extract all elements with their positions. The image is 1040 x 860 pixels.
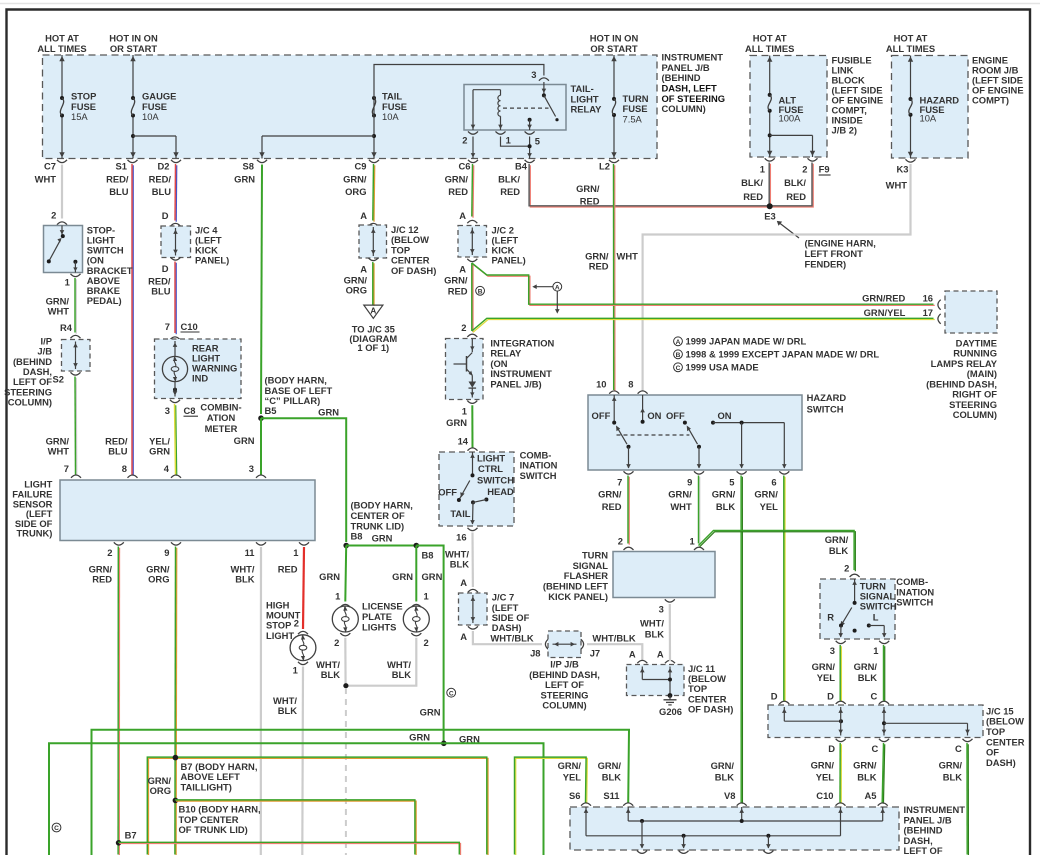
svg-text:INATION: INATION bbox=[520, 460, 558, 471]
wire GRN/BLK hazard pin5 to bottom J/B V8 bbox=[741, 477, 743, 804]
svg-text:D: D bbox=[162, 210, 169, 221]
tail fuse output branch to S8 and C9 bbox=[373, 116, 375, 159]
svg-text:TURN: TURN bbox=[582, 549, 608, 560]
svg-text:RED: RED bbox=[743, 191, 763, 202]
connector 16 of light ctrl switch bbox=[468, 528, 478, 531]
svg-text:GRN: GRN bbox=[372, 533, 393, 544]
svg-text:C: C bbox=[54, 825, 59, 832]
junction connector J/C11 box bbox=[627, 665, 685, 696]
svg-text:BLK/: BLK/ bbox=[784, 177, 806, 188]
svg-text:PLATE: PLATE bbox=[362, 611, 392, 622]
svg-text:7: 7 bbox=[165, 321, 170, 332]
svg-text:B: B bbox=[478, 288, 483, 295]
svg-text:9: 9 bbox=[164, 547, 169, 558]
splice GRN (line B junction) bbox=[441, 741, 447, 747]
svg-text:BLK: BLK bbox=[321, 669, 340, 680]
svg-text:C: C bbox=[872, 743, 879, 754]
svg-text:YEL: YEL bbox=[817, 672, 836, 683]
svg-text:BLK: BLK bbox=[943, 771, 962, 782]
svg-text:D: D bbox=[827, 691, 834, 702]
svg-text:SIGNAL: SIGNAL bbox=[573, 560, 609, 571]
wire GRN/YEL J/C15 to bottom J/B C10 bbox=[840, 744, 842, 804]
svg-text:RED: RED bbox=[786, 191, 806, 202]
light ctrl switch box bbox=[439, 452, 514, 526]
svg-text:LEFT FRONT: LEFT FRONT bbox=[805, 248, 864, 259]
daytime running lamps relay box bbox=[945, 291, 997, 333]
wire fusible link pin1 BLK/RED to splice E3 bbox=[769, 164, 771, 207]
svg-text:10: 10 bbox=[596, 378, 606, 389]
splice B7 on GRN/ORG bbox=[173, 755, 179, 761]
svg-text:B8: B8 bbox=[422, 549, 434, 560]
svg-text:WHT: WHT bbox=[617, 250, 639, 261]
svg-text:4: 4 bbox=[164, 463, 170, 474]
hazard switch contact 1 bbox=[613, 395, 615, 423]
svg-text:BLK/: BLK/ bbox=[741, 177, 763, 188]
rear light warning indicator box bbox=[155, 339, 242, 399]
svg-text:7.5A: 7.5A bbox=[623, 113, 643, 124]
turn signal switch box bbox=[820, 579, 895, 639]
svg-text:D2: D2 bbox=[158, 161, 170, 172]
hazard fuse 10A bbox=[910, 56, 912, 100]
tail-light relay pin 3 connector bbox=[539, 78, 549, 81]
svg-text:SWITCH: SWITCH bbox=[896, 597, 933, 608]
svg-text:OF DASH): OF DASH) bbox=[391, 265, 436, 276]
wire D2 RED/BLU to J/C4 bbox=[175, 165, 178, 222]
wire K3 WHT to hazard switch pin 8 bbox=[643, 164, 911, 391]
svg-text:C8: C8 bbox=[184, 405, 196, 416]
svg-text:RED: RED bbox=[500, 186, 520, 197]
arrow to splice E3 bbox=[780, 223, 800, 238]
connector S2 bbox=[71, 372, 81, 375]
svg-text:OF DASH): OF DASH) bbox=[688, 704, 733, 715]
svg-text:ATION: ATION bbox=[207, 412, 236, 423]
alt fuse 100A bbox=[769, 56, 771, 95]
svg-text:PEDAL): PEDAL) bbox=[87, 295, 122, 306]
wire GRN/WHT S2 to LFS pin 7 bbox=[75, 378, 78, 476]
hazard switch box bbox=[588, 395, 802, 470]
svg-text:GRN/: GRN/ bbox=[853, 760, 877, 771]
svg-text:RED: RED bbox=[602, 501, 622, 512]
svg-text:2: 2 bbox=[294, 618, 299, 629]
wire WHT/BLK LFS pin11 to bottom bbox=[260, 547, 262, 855]
svg-text:A: A bbox=[460, 577, 467, 588]
svg-text:10A: 10A bbox=[142, 111, 159, 122]
gauge fuse 10A bbox=[132, 55, 134, 98]
wire L2 GRN/RED to hazard switch pin 10 bbox=[614, 165, 616, 391]
svg-text:B4: B4 bbox=[515, 161, 528, 172]
wire GRN/BLK flasher pin1 to turn signal switch pin2 bbox=[700, 532, 856, 572]
svg-text:BLU: BLU bbox=[108, 446, 127, 457]
svg-text:2: 2 bbox=[802, 164, 807, 175]
hazard switch bottom connectors bbox=[624, 471, 634, 474]
svg-text:RED: RED bbox=[92, 573, 112, 584]
svg-text:COMBIN-: COMBIN- bbox=[200, 402, 241, 413]
tail-light relay box bbox=[464, 85, 566, 131]
svg-text:CTRL: CTRL bbox=[478, 463, 503, 474]
svg-text:2: 2 bbox=[461, 322, 466, 333]
wire WHT/BLK flasher pin3 to J/C11 pin A bbox=[669, 604, 671, 661]
svg-text:ON: ON bbox=[718, 410, 732, 421]
svg-text:C7: C7 bbox=[44, 161, 56, 172]
svg-text:BLK: BLK bbox=[235, 573, 254, 584]
wire C7 WHT to stop light switch bbox=[61, 165, 63, 219]
integration relay box bbox=[446, 339, 484, 400]
turn signal switch bottom connectors bbox=[836, 641, 846, 644]
connector K3 bbox=[906, 159, 916, 162]
note C circled bottom left bbox=[52, 823, 61, 832]
wire GRN line B right to bottom bbox=[444, 743, 544, 855]
svg-text:J7: J7 bbox=[590, 648, 600, 659]
wire GRN B5 branch to B8 splice bbox=[261, 418, 346, 542]
wire WHT/BLK light ctrl switch to J/C7 bbox=[471, 533, 474, 588]
svg-text:YEL: YEL bbox=[816, 771, 835, 782]
svg-text:16: 16 bbox=[456, 532, 466, 543]
svg-text:1: 1 bbox=[293, 664, 298, 675]
svg-text:J8: J8 bbox=[530, 648, 540, 659]
svg-text:LEFT OF: LEFT OF bbox=[904, 845, 943, 855]
svg-text:BLK: BLK bbox=[858, 672, 877, 683]
connector 2 / F9 of fusible link bbox=[808, 158, 818, 161]
svg-text:GRN/: GRN/ bbox=[598, 760, 622, 771]
svg-text:V8: V8 bbox=[724, 790, 735, 801]
wire GRN B8 to corner and down to GRN splice bbox=[416, 546, 443, 744]
svg-text:G206: G206 bbox=[659, 706, 682, 717]
svg-text:HAZARD: HAZARD bbox=[807, 392, 847, 403]
svg-text:ALL TIMES: ALL TIMES bbox=[745, 43, 794, 54]
svg-text:K3: K3 bbox=[897, 164, 909, 175]
svg-text:2: 2 bbox=[462, 134, 467, 145]
connector D2 bbox=[171, 160, 181, 163]
svg-text:1: 1 bbox=[65, 276, 70, 287]
tail-light relay pin 1 connector bbox=[496, 131, 506, 134]
svg-text:6: 6 bbox=[771, 476, 776, 487]
legend note B bbox=[674, 350, 683, 359]
svg-text:A: A bbox=[360, 210, 367, 221]
svg-text:PANEL): PANEL) bbox=[195, 254, 229, 265]
ground G206 bbox=[668, 693, 673, 698]
svg-text:OFF: OFF bbox=[438, 486, 457, 497]
wire WHT/BLK J/C7 to I/P J/B J8 bbox=[473, 631, 542, 644]
svg-text:C6: C6 bbox=[459, 161, 471, 172]
svg-text:ORG: ORG bbox=[345, 186, 366, 197]
svg-text:BLK: BLK bbox=[278, 705, 297, 716]
svg-text:BLK/: BLK/ bbox=[498, 173, 520, 184]
wire GRN/YEL line C right to bottom J/B S6 bbox=[516, 758, 588, 855]
license ground splice bbox=[343, 683, 348, 688]
tail-light relay coil bbox=[473, 89, 501, 91]
svg-text:GRN/: GRN/ bbox=[939, 760, 963, 771]
svg-text:WHT: WHT bbox=[35, 173, 57, 184]
svg-text:16: 16 bbox=[923, 293, 933, 304]
wire D RED/BLU J/C4 to combination meter C10 bbox=[175, 263, 177, 335]
svg-text:C: C bbox=[449, 690, 454, 697]
engine room J/B box bbox=[892, 56, 969, 159]
svg-text:GRN: GRN bbox=[234, 173, 255, 184]
svg-text:GRN: GRN bbox=[446, 417, 467, 428]
svg-text:RED: RED bbox=[589, 260, 609, 271]
svg-text:3: 3 bbox=[531, 69, 536, 80]
svg-text:L: L bbox=[873, 612, 879, 623]
wire GRN/RED branch to daytime running lamps relay pin 16 bbox=[473, 264, 935, 305]
svg-text:OF TRUNK LID): OF TRUNK LID) bbox=[179, 824, 248, 835]
connector 1 of integration relay bbox=[467, 401, 477, 404]
svg-text:S1: S1 bbox=[116, 161, 127, 172]
svg-text:COLUMN): COLUMN) bbox=[542, 700, 586, 711]
svg-text:E3: E3 bbox=[764, 210, 775, 221]
svg-text:17: 17 bbox=[923, 307, 933, 318]
svg-text:HEAD: HEAD bbox=[487, 486, 514, 497]
wire B4 BLK/RED to splice E3 bbox=[530, 165, 769, 207]
svg-text:GRN/: GRN/ bbox=[445, 173, 469, 184]
svg-text:COMPT): COMPT) bbox=[972, 95, 1009, 106]
svg-text:METER: METER bbox=[205, 423, 238, 434]
svg-text:ORG: ORG bbox=[148, 573, 169, 584]
light failure sensor bottom connectors bbox=[114, 542, 124, 545]
svg-text:IND: IND bbox=[192, 372, 208, 383]
splice B8 left bbox=[343, 543, 349, 549]
svg-text:1: 1 bbox=[462, 406, 467, 417]
svg-text:100A: 100A bbox=[779, 113, 802, 124]
svg-text:COLUMN): COLUMN) bbox=[953, 409, 997, 420]
svg-text:2: 2 bbox=[844, 563, 849, 574]
svg-text:10A: 10A bbox=[920, 113, 937, 124]
svg-text:WHT/: WHT/ bbox=[640, 618, 664, 629]
svg-text:BLK: BLK bbox=[716, 501, 735, 512]
svg-text:2: 2 bbox=[334, 637, 339, 648]
svg-text:GRN/: GRN/ bbox=[558, 760, 582, 771]
svg-text:S11: S11 bbox=[603, 790, 619, 801]
svg-text:WHT: WHT bbox=[48, 305, 70, 316]
wire WHT/BLK right license bulb to ground splice bbox=[347, 638, 417, 686]
svg-text:A: A bbox=[459, 263, 466, 274]
svg-text:LIGHT: LIGHT bbox=[266, 630, 294, 641]
svg-text:TRUNK): TRUNK) bbox=[16, 528, 52, 539]
tail-light relay pin 5 connector bbox=[525, 131, 535, 134]
svg-text:2: 2 bbox=[618, 535, 623, 546]
wire GRN line B left leg bbox=[49, 743, 444, 855]
wire YEL/GRN combination meter C8 to LFS pin 4 bbox=[176, 405, 177, 476]
svg-text:TAILLIGHT): TAILLIGHT) bbox=[181, 782, 232, 793]
svg-text:GRN/: GRN/ bbox=[711, 760, 735, 771]
note A circled with arrows bbox=[553, 282, 562, 291]
svg-text:GRN/: GRN/ bbox=[444, 274, 468, 285]
svg-text:A: A bbox=[360, 263, 367, 274]
svg-text:GRN: GRN bbox=[409, 731, 430, 742]
svg-text:YEL: YEL bbox=[760, 501, 779, 512]
svg-text:COMB-: COMB- bbox=[896, 576, 928, 587]
svg-text:11: 11 bbox=[245, 547, 255, 558]
wire GRN/YEL TS pin3 to J/C15 bbox=[840, 646, 842, 702]
svg-text:GRN/: GRN/ bbox=[825, 534, 849, 545]
svg-text:GRN: GRN bbox=[420, 706, 441, 717]
daytime running lamps relay connectors 16 17 bbox=[938, 300, 941, 310]
wire GRN/ORG line C left (B7 tail branch) bbox=[149, 758, 489, 855]
svg-text:PANEL): PANEL) bbox=[492, 254, 526, 265]
svg-text:GRN/: GRN/ bbox=[854, 661, 878, 672]
svg-text:2: 2 bbox=[51, 209, 56, 220]
wire GRN B5 to LFS pin 3 bbox=[260, 418, 262, 475]
svg-text:ALL TIMES: ALL TIMES bbox=[886, 43, 935, 54]
tail-light relay mechanical link (dashed) bbox=[503, 107, 549, 109]
svg-text:ORG: ORG bbox=[150, 785, 171, 796]
svg-text:C9: C9 bbox=[355, 161, 367, 172]
wire GRN line A from bottom to bottom J/B S11 bbox=[92, 730, 630, 855]
hazard switch mechanical link dashed bbox=[617, 434, 690, 436]
svg-text:3: 3 bbox=[659, 604, 664, 615]
svg-text:RED: RED bbox=[580, 196, 600, 207]
svg-text:7: 7 bbox=[64, 463, 69, 474]
svg-text:RED: RED bbox=[448, 186, 468, 197]
wire GRN/RED hazard pin7 to flasher pin2 bbox=[628, 477, 630, 545]
svg-text:RED/: RED/ bbox=[149, 173, 172, 184]
svg-text:10A: 10A bbox=[382, 111, 399, 122]
svg-text:3: 3 bbox=[249, 463, 254, 474]
svg-text:INATION: INATION bbox=[896, 586, 934, 597]
svg-text:A: A bbox=[459, 210, 466, 221]
wire RED LFS pin1 to high mount stop light bbox=[303, 547, 304, 629]
connector C9 bbox=[369, 160, 379, 163]
svg-text:A: A bbox=[460, 631, 467, 642]
bottom J/B internals bbox=[585, 807, 587, 836]
connector 1 of fusible link bbox=[765, 158, 775, 161]
svg-text:RELAY: RELAY bbox=[571, 104, 603, 115]
wire GRN/ORG LFS pin9 to bottom with splices B7 B10 bbox=[175, 548, 178, 856]
wire C9 GRN/ORG to J/C12 bbox=[373, 165, 376, 222]
connector B4 bbox=[525, 160, 535, 163]
svg-text:OFF: OFF bbox=[592, 410, 611, 421]
svg-text:GRN/: GRN/ bbox=[754, 489, 778, 500]
turn signal flasher pin 3 connector bbox=[665, 599, 675, 602]
svg-text:A: A bbox=[370, 306, 376, 315]
svg-text:8: 8 bbox=[122, 463, 127, 474]
svg-text:1: 1 bbox=[335, 591, 340, 602]
J/C15 bottom connectors bbox=[836, 739, 846, 742]
svg-text:COMB-: COMB- bbox=[520, 449, 552, 460]
svg-text:OR START: OR START bbox=[590, 43, 637, 54]
splice B10 and GRN/ORG line D bbox=[173, 798, 179, 804]
wire C6 GRN/RED to J/C2 bbox=[472, 165, 475, 218]
legend note C bbox=[674, 363, 683, 372]
svg-text:BLK: BLK bbox=[450, 558, 469, 569]
note C circled near GRN wire bbox=[447, 688, 456, 697]
svg-text:BLK: BLK bbox=[829, 545, 848, 556]
turn signal flasher box bbox=[613, 552, 715, 598]
svg-text:COLUMN): COLUMN) bbox=[8, 397, 52, 408]
tail fuse 10A bbox=[373, 98, 375, 116]
svg-text:8: 8 bbox=[628, 378, 633, 389]
svg-text:ON: ON bbox=[647, 410, 661, 421]
svg-text:FENDER): FENDER) bbox=[805, 259, 847, 270]
tail-light relay contact bbox=[543, 82, 545, 95]
light failure sensor box bbox=[60, 480, 315, 541]
svg-text:1: 1 bbox=[873, 645, 878, 656]
wire GRN integration relay to light ctrl switch pin 14 bbox=[471, 405, 473, 447]
svg-text:C: C bbox=[676, 365, 681, 372]
wire S8 GRN to combination meter B5 splice bbox=[261, 165, 262, 415]
svg-text:(BEHIND LEFT: (BEHIND LEFT bbox=[543, 580, 608, 591]
svg-text:SWITCH: SWITCH bbox=[807, 403, 844, 414]
svg-text:RED/: RED/ bbox=[106, 173, 129, 184]
svg-text:GRN/: GRN/ bbox=[576, 183, 600, 194]
svg-text:PANEL J/B): PANEL J/B) bbox=[490, 379, 541, 390]
svg-text:GRN: GRN bbox=[149, 446, 170, 457]
integration relay transistor and diode bbox=[471, 339, 473, 353]
svg-text:BLK: BLK bbox=[392, 669, 411, 680]
svg-text:1: 1 bbox=[293, 547, 298, 558]
svg-text:R4: R4 bbox=[60, 322, 73, 333]
svg-text:BLK: BLK bbox=[857, 771, 876, 782]
I/P J/B junction box (R4/S2) bbox=[62, 340, 91, 372]
svg-text:GRN/: GRN/ bbox=[811, 760, 835, 771]
svg-text:GRN/YEL: GRN/YEL bbox=[864, 307, 906, 318]
svg-text:GRN: GRN bbox=[319, 571, 340, 582]
connector S1 bbox=[128, 160, 138, 163]
dashed WHT/BLK continuation to bottom bbox=[345, 688, 347, 855]
connector C7 bbox=[57, 160, 67, 163]
wire GRN right license bulb feed bbox=[415, 546, 417, 602]
wire GRN left license bulb feed bbox=[344, 546, 347, 602]
connector L2 bbox=[609, 160, 619, 163]
svg-text:D: D bbox=[771, 691, 778, 702]
svg-text:OFF: OFF bbox=[666, 410, 685, 421]
svg-text:2: 2 bbox=[107, 547, 112, 558]
svg-text:1999 USA MADE: 1999 USA MADE bbox=[686, 362, 759, 373]
svg-text:15A: 15A bbox=[71, 111, 88, 122]
svg-text:TAIL: TAIL bbox=[450, 508, 470, 519]
svg-text:SWITCH: SWITCH bbox=[477, 474, 514, 485]
wire GRN/YEL branch to daytime running lamps relay pin 17 bbox=[473, 320, 935, 333]
svg-text:1998 & 1999 EXCEPT JAPAN MADE: 1998 & 1999 EXCEPT JAPAN MADE W/ DRL bbox=[686, 349, 880, 360]
svg-text:BLU: BLU bbox=[109, 186, 128, 197]
page border frame bbox=[0, 3, 1040, 5]
svg-text:A: A bbox=[629, 649, 636, 660]
svg-text:ORG: ORG bbox=[346, 284, 367, 295]
wire WHT/BLK left license bulb to ground splice bbox=[344, 638, 347, 686]
svg-text:LICENSE: LICENSE bbox=[362, 600, 403, 611]
svg-text:B: B bbox=[676, 352, 681, 359]
svg-text:WHT/BLK: WHT/BLK bbox=[592, 632, 635, 643]
svg-text:(ENGINE HARN,: (ENGINE HARN, bbox=[805, 238, 876, 249]
wire GRN/RED LFS pin2 to bottom with splice B7 bbox=[118, 548, 120, 856]
svg-text:B8: B8 bbox=[351, 531, 363, 542]
svg-text:1: 1 bbox=[424, 591, 429, 602]
svg-text:J/B 2): J/B 2) bbox=[832, 125, 858, 136]
svg-text:YEL: YEL bbox=[563, 771, 582, 782]
svg-text:D: D bbox=[828, 743, 835, 754]
wire GRN/BLK J/C15 to bottom J/B A5 bbox=[883, 744, 884, 804]
svg-text:S6: S6 bbox=[569, 790, 580, 801]
wire GRN/BLK J/C15 right C to bottom edge bbox=[967, 744, 969, 856]
svg-text:S2: S2 bbox=[53, 373, 64, 384]
svg-text:GRN/: GRN/ bbox=[712, 489, 736, 500]
svg-text:A: A bbox=[676, 339, 681, 346]
instrument panel J/B (bottom) box bbox=[570, 807, 899, 850]
turn fuse 7.5A bbox=[613, 55, 615, 99]
hazard switch ON contact 1 bbox=[642, 395, 644, 422]
svg-text:S8: S8 bbox=[243, 161, 254, 172]
svg-text:WHT: WHT bbox=[670, 501, 692, 512]
svg-text:A: A bbox=[555, 284, 560, 291]
wire GRN/YEL hazard pin6 to J/C15 pin D bbox=[784, 477, 786, 702]
stop light switch box bbox=[44, 226, 83, 273]
svg-text:KICK PANEL): KICK PANEL) bbox=[548, 591, 608, 602]
svg-text:GRN: GRN bbox=[234, 435, 255, 446]
svg-text:COLUMN): COLUMN) bbox=[662, 103, 706, 114]
svg-text:C: C bbox=[955, 743, 962, 754]
wire GRN/ORG J/C12 to J/C35 triangle bbox=[373, 263, 375, 306]
off-page triangle to J/C35 bbox=[364, 305, 383, 318]
svg-text:B7: B7 bbox=[125, 830, 137, 841]
